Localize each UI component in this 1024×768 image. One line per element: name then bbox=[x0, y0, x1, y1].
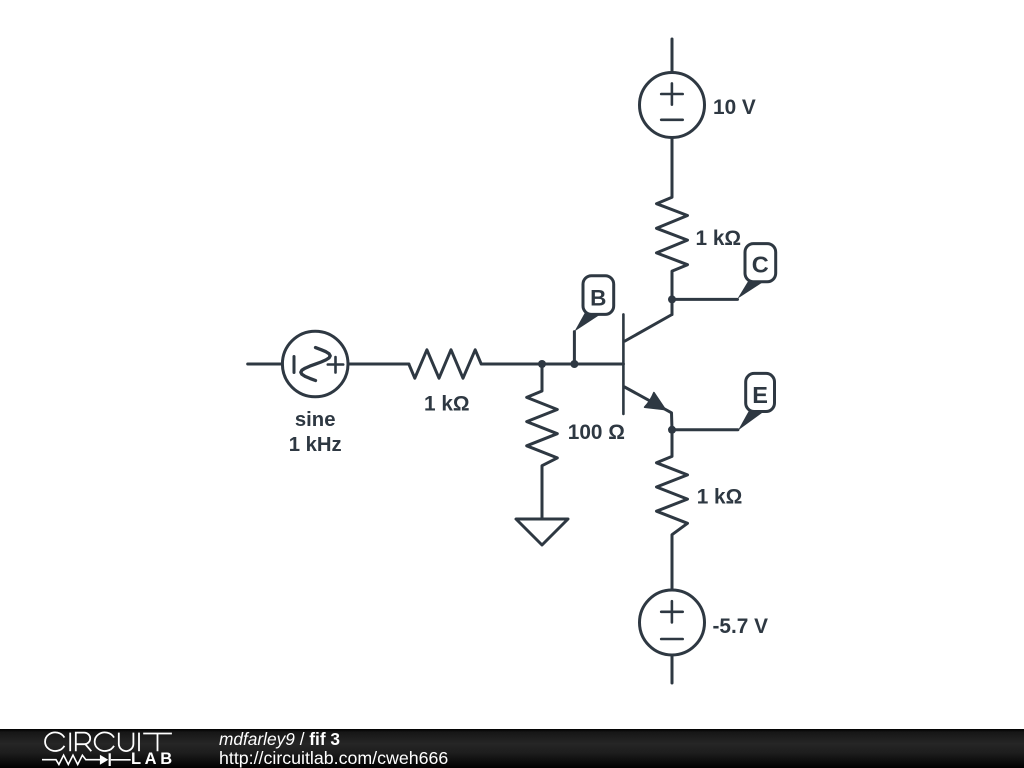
svg-text:B: B bbox=[590, 285, 606, 310]
svg-text:10 V: 10 V bbox=[713, 96, 756, 119]
svg-text:1 kHz: 1 kHz bbox=[289, 434, 342, 456]
svg-text:-5.7 V: -5.7 V bbox=[713, 615, 769, 638]
svg-text:E: E bbox=[752, 382, 768, 408]
svg-text:C: C bbox=[752, 252, 769, 278]
svg-text:1 kΩ: 1 kΩ bbox=[697, 486, 743, 509]
svg-text:http://circuitlab.com/cweh666: http://circuitlab.com/cweh666 bbox=[219, 748, 448, 768]
svg-text:100 Ω: 100 Ω bbox=[568, 421, 625, 444]
svg-text:1 kΩ: 1 kΩ bbox=[696, 227, 742, 250]
svg-text:1 kΩ: 1 kΩ bbox=[424, 393, 470, 416]
svg-text:mdfarley9 / fif 3: mdfarley9 / fif 3 bbox=[219, 729, 340, 749]
svg-text:sine: sine bbox=[295, 409, 336, 431]
svg-text:LAB: LAB bbox=[131, 750, 176, 768]
